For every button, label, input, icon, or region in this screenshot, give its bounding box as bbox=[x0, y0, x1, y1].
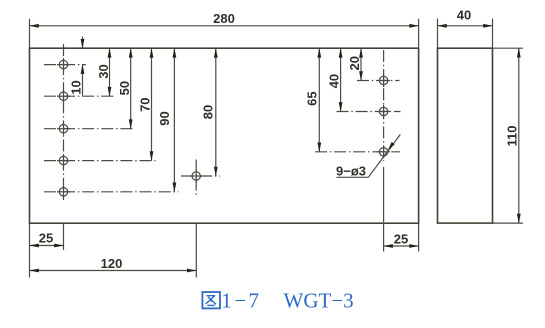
svg-text:20: 20 bbox=[347, 56, 362, 70]
svg-text:80: 80 bbox=[201, 105, 216, 119]
svg-text:110: 110 bbox=[505, 126, 520, 147]
svg-text:280: 280 bbox=[213, 11, 235, 26]
svg-text:WGT−3: WGT−3 bbox=[284, 289, 354, 313]
svg-text:40: 40 bbox=[327, 74, 342, 88]
svg-text:65: 65 bbox=[305, 91, 320, 105]
svg-text:9−ø3: 9−ø3 bbox=[336, 163, 366, 178]
svg-text:1−7: 1−7 bbox=[221, 289, 261, 313]
svg-text:10: 10 bbox=[69, 80, 84, 94]
svg-text:50: 50 bbox=[117, 81, 132, 95]
svg-text:90: 90 bbox=[157, 111, 172, 125]
svg-text:25: 25 bbox=[394, 232, 408, 247]
svg-text:40: 40 bbox=[457, 8, 471, 23]
svg-text:120: 120 bbox=[101, 256, 123, 271]
svg-text:25: 25 bbox=[39, 231, 53, 246]
svg-text:70: 70 bbox=[137, 97, 152, 111]
svg-text:30: 30 bbox=[96, 64, 111, 78]
